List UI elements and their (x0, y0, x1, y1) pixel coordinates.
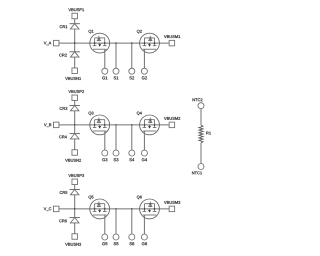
diode CR2 (59, 52, 80, 57)
wire V_A rail (59, 42, 170, 44)
diode CR4 (59, 134, 80, 139)
transistor Q4 (N-MOSFET in circle) (140, 115, 160, 135)
wire to pin S4 (131, 125, 133, 150)
pin G3 (102, 150, 108, 161)
pin G6 (141, 234, 147, 245)
port VBUSP2 (68, 90, 84, 100)
wire (74, 195, 76, 209)
label Q3 (89, 112, 94, 116)
wire to pin G4 (143, 131, 145, 150)
wire (74, 184, 76, 189)
label Q4 (137, 112, 142, 116)
pin S5 (113, 234, 119, 245)
wire to pin S5 (115, 209, 117, 234)
junction source node (115, 124, 132, 126)
node V_A junction (74, 42, 76, 44)
wire to pin G3 (104, 131, 106, 150)
pin S6 (129, 234, 135, 245)
port VBUSM1 (164, 35, 180, 46)
port VBUSM2 (164, 117, 180, 128)
junction source node (115, 42, 132, 44)
diode CR3 (60, 106, 80, 111)
port VBUSM3 (164, 201, 180, 212)
wire to pin G5 (104, 215, 106, 234)
wire (74, 100, 76, 105)
diode CR1 (60, 24, 80, 29)
wire (74, 29, 76, 43)
wire (74, 19, 76, 24)
port V_C (44, 206, 59, 212)
label Q2 (137, 30, 142, 34)
port V_A (44, 40, 59, 46)
port VBUSN1 (65, 68, 81, 80)
label Q6 (137, 196, 142, 200)
pin S2 (129, 68, 135, 79)
node V_C junction (74, 208, 76, 210)
wire (74, 57, 76, 68)
wire to pin S3 (115, 125, 117, 150)
label Q5 (89, 196, 94, 200)
transistor Q6 (N-MOSFET in circle) (140, 199, 160, 219)
pin NTC1 (192, 164, 204, 175)
wire (74, 125, 76, 134)
resistor R1 (NTC) (199, 125, 211, 143)
wire V_C rail (59, 208, 170, 210)
wire (74, 209, 76, 218)
pin G4 (141, 150, 147, 161)
transistor Q2 (N-MOSFET in circle) (140, 33, 160, 53)
diode CR5 (60, 190, 80, 195)
wire to pin S2 (131, 43, 133, 68)
pin S1 (113, 68, 119, 79)
transistor Q5 (N-MOSFET in circle) (90, 199, 110, 219)
wire (200, 109, 202, 125)
transistor Q3 (N-MOSFET in circle) (90, 115, 110, 135)
wire (74, 139, 76, 150)
wire to pin S1 (115, 43, 117, 68)
port VBUSP1 (68, 8, 84, 18)
wire (74, 43, 76, 52)
wire (200, 143, 202, 163)
pin S3 (113, 150, 119, 161)
wire to pin G1 (104, 49, 106, 68)
junction source node (115, 208, 132, 210)
wire (74, 223, 76, 234)
pin S4 (129, 150, 135, 161)
port V_B (44, 122, 59, 128)
transistor Q1 (N-MOSFET in circle) (90, 33, 110, 53)
pin G5 (102, 234, 108, 245)
wire to pin S6 (131, 209, 133, 234)
node V_B junction (74, 124, 76, 126)
pin G2 (141, 68, 147, 79)
port VBUSP3 (68, 174, 84, 184)
wire to pin G2 (143, 49, 145, 68)
wire to pin G6 (143, 215, 145, 234)
label Q1 (89, 30, 94, 34)
diode CR6 (59, 218, 80, 223)
port VBUSN3 (65, 234, 81, 246)
pin NTC2 (193, 98, 204, 108)
pin G1 (102, 68, 108, 79)
wire (74, 111, 76, 125)
port VBUSN2 (65, 150, 81, 162)
wire V_B rail (59, 124, 170, 126)
